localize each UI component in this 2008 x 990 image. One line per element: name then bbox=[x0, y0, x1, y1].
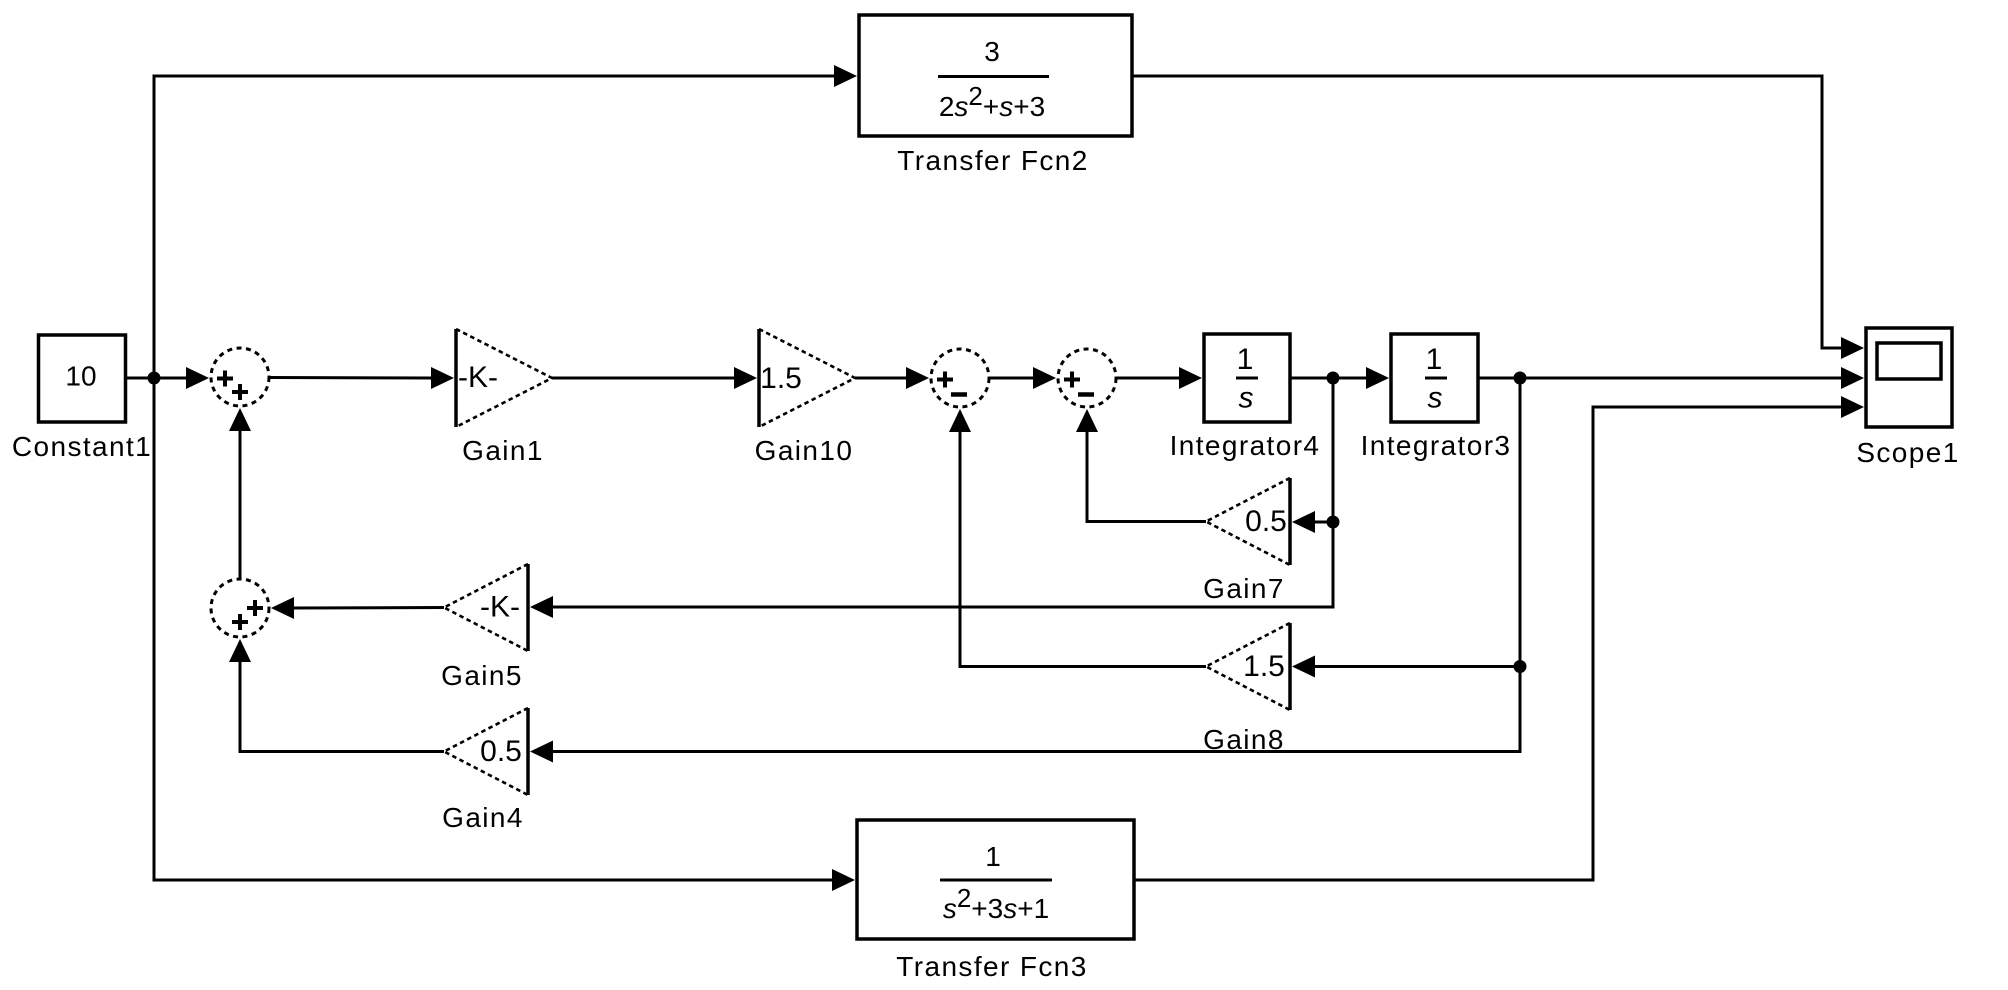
wire Gain7 to Sum2 bottom bbox=[1076, 409, 1206, 522]
wire branch down to Transfer Fcn3 bbox=[154, 378, 855, 891]
svg-text:Gain8: Gain8 bbox=[1203, 724, 1285, 755]
svg-text:10: 10 bbox=[65, 361, 96, 392]
svg-text:-K-: -K- bbox=[458, 361, 498, 394]
svg-text:Scope1: Scope1 bbox=[1856, 437, 1959, 468]
sum junction Sum2 (circle, + -) bbox=[1058, 349, 1116, 407]
wire Constant1 to Sum A with junction node bbox=[126, 367, 210, 389]
wire Gain5 to Sum3 right bbox=[271, 597, 444, 619]
wire junction down to Gain7 and Gain5 bbox=[530, 378, 1340, 618]
svg-text:1: 1 bbox=[985, 841, 1001, 872]
wire Sum1 to Sum2 bbox=[989, 367, 1056, 389]
svg-text:1: 1 bbox=[1237, 343, 1254, 376]
block Scope1 bbox=[1866, 328, 1952, 427]
gain Gain1 (-K-) bbox=[456, 329, 552, 427]
svg-text:Gain5: Gain5 bbox=[441, 660, 523, 691]
svg-text:s: s bbox=[1428, 382, 1443, 415]
block Integrator4 (1/s) bbox=[1204, 334, 1290, 422]
svg-text:Integrator3: Integrator3 bbox=[1361, 430, 1512, 461]
gain Gain4 (0.5, points left) bbox=[444, 708, 528, 795]
svg-text:s: s bbox=[1239, 382, 1254, 415]
svg-text:-K-: -K- bbox=[480, 591, 520, 624]
svg-text:Gain10: Gain10 bbox=[755, 435, 854, 466]
svg-text:Transfer Fcn2: Transfer Fcn2 bbox=[897, 145, 1088, 176]
svg-text:Integrator4: Integrator4 bbox=[1170, 430, 1321, 461]
wire Sum A to Gain1 bbox=[269, 367, 454, 389]
wire Sum2 to Integrator4 bbox=[1116, 367, 1202, 389]
sum junction Sum3 (circle, + +) bbox=[211, 579, 269, 637]
wire junction down to Gain8 and Gain4 bbox=[530, 378, 1527, 763]
svg-text:Gain1: Gain1 bbox=[462, 435, 544, 466]
gain Gain10 (1.5) bbox=[759, 329, 855, 427]
wire Gain8 to Sum1 bottom bbox=[949, 409, 1206, 667]
wire Transfer Fcn2 to Scope1 top bbox=[1132, 76, 1864, 359]
wire Gain1 to Gain10 bbox=[552, 367, 757, 389]
svg-text:Gain7: Gain7 bbox=[1203, 573, 1285, 604]
wire branch up to Transfer Fcn2 bbox=[154, 65, 857, 378]
svg-text:Transfer Fcn3: Transfer Fcn3 bbox=[896, 951, 1087, 982]
sum junction A (circle, + +) bbox=[211, 348, 269, 406]
block Integrator3 (1/s) bbox=[1391, 334, 1478, 422]
svg-text:0.5: 0.5 bbox=[1245, 505, 1287, 538]
svg-text:1.5: 1.5 bbox=[760, 362, 802, 395]
block Transfer Fcn2 bbox=[859, 15, 1132, 136]
svg-text:1.5: 1.5 bbox=[1243, 650, 1285, 683]
wire Integrator4 to Integrator3 with junction bbox=[1290, 367, 1389, 389]
block Transfer Fcn3 bbox=[857, 820, 1134, 939]
svg-text:Gain4: Gain4 bbox=[442, 802, 524, 833]
svg-text:3: 3 bbox=[984, 36, 1000, 67]
svg-text:1: 1 bbox=[1426, 343, 1443, 376]
gain Gain7 (0.5, points left) bbox=[1206, 478, 1290, 565]
wire Sum3 output up to Sum A bottom bbox=[229, 408, 251, 579]
gain Gain5 (-K-, points left) bbox=[444, 564, 528, 651]
wire Gain4 to Sum3 bottom bbox=[229, 639, 444, 752]
wire Transfer Fcn3 to Scope1 bottom bbox=[1134, 396, 1864, 880]
gain Gain8 (1.5, points left) bbox=[1206, 623, 1290, 710]
wire Gain10 to Sum1 bbox=[855, 367, 929, 389]
wire Integrator3 to Scope1 with junction bbox=[1478, 367, 1864, 389]
block Constant1 bbox=[39, 335, 126, 422]
svg-text:0.5: 0.5 bbox=[480, 735, 522, 768]
svg-text:Constant1: Constant1 bbox=[12, 431, 152, 462]
sum junction Sum1 (circle, + -) bbox=[931, 349, 989, 407]
